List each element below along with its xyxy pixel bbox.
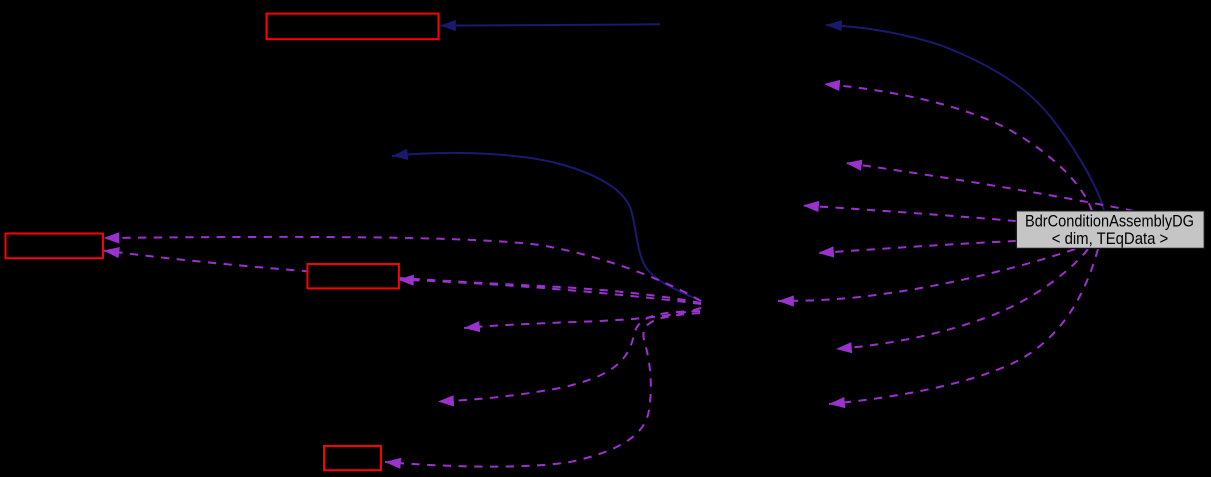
edge: purple dashed from center invisible node to middle red box <box>398 280 701 304</box>
node: middle red box <box>307 264 399 288</box>
edge: purple dashed from center invisible node to left red box (lower) <box>104 251 702 304</box>
node: left red box <box>6 234 104 259</box>
edge: purple dashed from gray box to middle column node 1 <box>824 84 1092 211</box>
edge: purple dashed from center invisible node to lower-left invisible node 1 <box>464 308 701 328</box>
edge: purple dashed from center invisible node to lower-left invisible node 2 <box>438 311 700 402</box>
edge: purple dashed from center invisible node to bottom red box <box>385 313 700 467</box>
svg-text:BdrConditionAssemblyDG: BdrConditionAssemblyDG <box>1025 213 1194 231</box>
edge: blue inheritance curve from gray box to top-center invisible node <box>826 25 1104 211</box>
node: BdrConditionAssemblyDG gray box <box>1016 211 1204 249</box>
edge: blue inheritance curve from center invisible node up-left <box>392 153 701 301</box>
node: bottom red box <box>324 446 381 470</box>
edge: blue inheritance arrow into top red box <box>440 24 660 25</box>
edge: purple dashed from gray box to middle column node 4 <box>818 241 1016 253</box>
edge: purple dashed from gray box to middle column node 2 <box>846 163 1134 211</box>
edge: purple dashed from gray box to center invisible node <box>778 249 1075 301</box>
node: top red box <box>267 14 439 40</box>
edge: purple dashed from center invisible node to left red box (upper) <box>104 237 702 301</box>
edge: purple dashed from gray box to middle column node 5 <box>836 249 1088 349</box>
edge: purple dashed from gray box to middle column node 6 <box>829 249 1098 404</box>
svg-text:< dim, TEqData >: < dim, TEqData > <box>1052 230 1169 248</box>
edge: purple dashed from gray box to middle column node 3 <box>803 206 1016 222</box>
